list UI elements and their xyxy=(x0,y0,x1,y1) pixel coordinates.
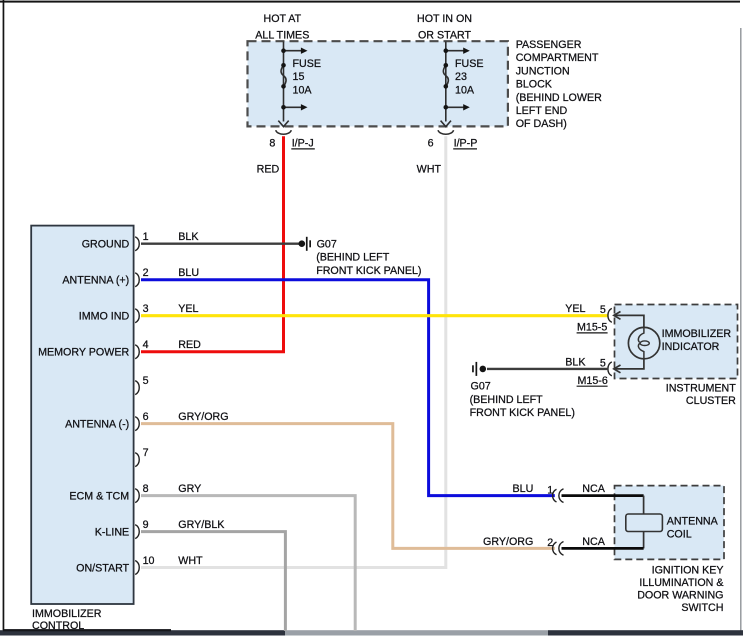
connector pin 2 antenna coil xyxy=(553,542,564,556)
svg-text:23: 23 xyxy=(455,71,467,83)
antenna coil box xyxy=(615,486,725,560)
svg-text:6: 6 xyxy=(143,411,149,423)
page border left xyxy=(3,0,5,633)
svg-text:BLU: BLU xyxy=(178,267,199,279)
wire GRY/BLK pin 9 down xyxy=(141,532,285,631)
footer band light middle xyxy=(285,630,548,635)
label HOT IN ON OR START xyxy=(417,13,472,41)
pin function labels inside immobilizer control xyxy=(38,239,130,575)
pin 2 connector xyxy=(135,273,139,287)
svg-text:COIL: COIL xyxy=(667,528,692,540)
svg-text:ANTENNA (-): ANTENNA (-) xyxy=(65,419,129,431)
wire NCA bottom antenna coil xyxy=(562,547,644,550)
svg-text:ON/START: ON/START xyxy=(76,562,130,574)
svg-text:M15-6: M15-6 xyxy=(578,375,608,387)
svg-text:YEL: YEL xyxy=(178,303,198,315)
svg-text:RED: RED xyxy=(178,339,201,351)
svg-text:FRONT KICK PANEL): FRONT KICK PANEL) xyxy=(470,407,575,419)
svg-text:4: 4 xyxy=(143,339,149,351)
svg-text:1: 1 xyxy=(143,231,149,243)
svg-text:5: 5 xyxy=(600,358,606,370)
svg-text:HOT IN ON: HOT IN ON xyxy=(417,13,472,25)
ground G07 left xyxy=(299,237,312,251)
cluster inner wire bottom xyxy=(614,358,644,373)
svg-text:CLUSTER: CLUSTER xyxy=(686,395,736,407)
svg-text:YEL: YEL xyxy=(565,303,585,315)
svg-text:K-LINE: K-LINE xyxy=(95,527,129,539)
passenger compartment junction block box xyxy=(248,41,508,126)
wire RED from fuse 15 to pin 4 xyxy=(141,136,284,351)
pin 4 connector xyxy=(135,345,139,359)
svg-text:SWITCH: SWITCH xyxy=(681,602,723,614)
svg-text:GRY/BLK: GRY/BLK xyxy=(178,519,225,531)
wire color labels at immobilizer control xyxy=(178,231,228,567)
immobilizer control box xyxy=(31,226,133,604)
label IGNITION KEY ILLUMINATION & DOOR WARNING SWITCH xyxy=(637,565,723,615)
svg-text:FRONT KICK PANEL): FRONT KICK PANEL) xyxy=(316,265,421,277)
label INSTRUMENT CLUSTER xyxy=(666,383,737,407)
fuse F15 10A xyxy=(278,42,301,127)
svg-text:M15-5: M15-5 xyxy=(577,322,607,334)
label IMMOBILIZER CONTROL xyxy=(32,608,102,632)
svg-text:ILLUMINATION &: ILLUMINATION & xyxy=(639,577,723,589)
pin 5 connector xyxy=(135,381,139,395)
page border top xyxy=(0,1,740,3)
coil bottom lead xyxy=(643,532,645,549)
svg-text:ALL TIMES: ALL TIMES xyxy=(255,29,309,41)
svg-text:5: 5 xyxy=(143,375,149,387)
label IMMOBILIZER INDICATOR xyxy=(662,328,732,353)
svg-text:10A: 10A xyxy=(455,84,475,96)
svg-text:WHT: WHT xyxy=(417,164,442,176)
svg-text:6: 6 xyxy=(428,137,434,149)
pin 3 connector xyxy=(135,309,139,323)
pin 10 connector xyxy=(135,561,139,575)
svg-text:IMMO IND: IMMO IND xyxy=(79,311,130,323)
svg-text:GRY/ORG: GRY/ORG xyxy=(178,411,228,423)
svg-text:OF DASH): OF DASH) xyxy=(516,118,567,130)
svg-text:7: 7 xyxy=(143,447,149,459)
coil top lead xyxy=(643,496,645,515)
label G07 behind left front kick panel right xyxy=(470,381,575,419)
page border right xyxy=(740,28,741,631)
svg-text:IGNITION KEY: IGNITION KEY xyxy=(652,565,724,577)
cluster connector M15-6 arc xyxy=(608,362,612,376)
cluster connector M15-5 arc xyxy=(608,308,612,322)
pin 6 connector xyxy=(135,417,139,431)
connector I/P-P cup xyxy=(438,130,454,134)
svg-text:5: 5 xyxy=(600,304,606,316)
svg-text:I/P-J: I/P-J xyxy=(292,137,314,149)
label G07 behind left front kick panel xyxy=(316,239,421,277)
antenna coil element xyxy=(626,514,663,532)
svg-text:10: 10 xyxy=(143,555,155,567)
svg-text:GRY: GRY xyxy=(178,483,201,495)
lamp immobilizer indicator xyxy=(628,327,659,358)
label FUSE 23 10A xyxy=(455,58,484,96)
svg-text:RED: RED xyxy=(257,164,280,176)
wire NCA top antenna coil xyxy=(562,494,644,497)
footer band dark left xyxy=(0,630,285,635)
svg-text:G07: G07 xyxy=(471,381,491,393)
svg-text:BLOCK: BLOCK xyxy=(516,79,553,91)
svg-text:(BEHIND LEFT: (BEHIND LEFT xyxy=(316,252,390,264)
label FUSE 15 10A xyxy=(293,58,322,96)
pin 8 connector xyxy=(135,489,139,503)
svg-text:DOOR WARNING: DOOR WARNING xyxy=(637,590,723,602)
svg-text:(BEHIND LOWER: (BEHIND LOWER xyxy=(516,92,602,104)
svg-text:2: 2 xyxy=(143,267,149,279)
label PASSENGER COMPARTMENT JUNCTION BLOCK xyxy=(516,39,602,130)
svg-text:WHT: WHT xyxy=(178,555,203,567)
svg-text:1: 1 xyxy=(547,484,553,496)
svg-text:OR START: OR START xyxy=(418,29,472,41)
svg-text:9: 9 xyxy=(143,519,149,531)
svg-text:3: 3 xyxy=(143,303,149,315)
svg-text:GRY/ORG: GRY/ORG xyxy=(483,536,533,548)
svg-text:NCA: NCA xyxy=(582,483,605,495)
svg-text:COMPARTMENT: COMPARTMENT xyxy=(516,52,599,64)
svg-text:HOT AT: HOT AT xyxy=(263,13,301,25)
svg-text:NCA: NCA xyxy=(582,536,605,548)
wire GRY pin 8 down xyxy=(141,496,355,631)
svg-text:INSTRUMENT: INSTRUMENT xyxy=(666,383,737,395)
svg-text:I/P-P: I/P-P xyxy=(454,137,478,149)
svg-text:BLK: BLK xyxy=(178,231,199,243)
pin connectors on immobilizer control xyxy=(135,237,139,575)
svg-text:G07: G07 xyxy=(317,239,337,251)
pin numbers immobilizer control xyxy=(143,231,155,567)
svg-text:FUSE: FUSE xyxy=(455,58,484,70)
wire YEL pin 3 to cluster M15-5 xyxy=(141,314,609,317)
connector pin 1 antenna coil xyxy=(553,489,564,503)
label HOT AT ALL TIMES xyxy=(255,13,309,41)
cluster inner wire top xyxy=(614,312,644,328)
svg-text:ANTENNA: ANTENNA xyxy=(667,515,719,527)
instrument cluster box xyxy=(615,305,738,379)
svg-text:BLU: BLU xyxy=(513,483,534,495)
svg-text:LEFT END: LEFT END xyxy=(516,105,568,117)
label ANTENNA COIL xyxy=(667,515,719,540)
svg-text:BLK: BLK xyxy=(565,356,586,368)
wire BLK G07 to cluster M15-6 xyxy=(487,368,609,370)
wire GRY/ORG pin 6 to antenna coil pin 2 xyxy=(141,424,555,549)
svg-text:8: 8 xyxy=(143,483,149,495)
svg-text:2: 2 xyxy=(547,537,553,549)
svg-text:IMMOBILIZER: IMMOBILIZER xyxy=(32,608,102,620)
pin 1 connector xyxy=(135,237,139,251)
svg-text:15: 15 xyxy=(293,71,305,83)
svg-text:8: 8 xyxy=(269,137,275,149)
svg-text:ANTENNA (+): ANTENNA (+) xyxy=(62,275,129,287)
fuse F23 10A xyxy=(441,42,464,127)
svg-text:IMMOBILIZER: IMMOBILIZER xyxy=(662,328,732,340)
connector I/P-J cup xyxy=(276,130,292,134)
svg-text:INDICATOR: INDICATOR xyxy=(662,341,720,353)
pin 9 connector xyxy=(135,525,139,539)
svg-text:JUNCTION: JUNCTION xyxy=(516,65,570,77)
wire BLK pin 1 to G07 xyxy=(141,242,299,244)
svg-text:MEMORY POWER: MEMORY POWER xyxy=(38,347,129,359)
svg-text:10A: 10A xyxy=(293,84,313,96)
svg-text:PASSENGER: PASSENGER xyxy=(516,39,582,51)
footer black line segment xyxy=(3,629,171,631)
wire BLU pin 2 to antenna coil pin 1 xyxy=(141,280,555,496)
ground G07 right xyxy=(472,362,486,376)
footer band dark right xyxy=(548,630,743,635)
pin 7 connector xyxy=(135,453,139,467)
svg-text:FUSE: FUSE xyxy=(293,58,322,70)
wire WHT from fuse 23 to pin 10 xyxy=(141,136,446,567)
svg-text:ECM & TCM: ECM & TCM xyxy=(69,491,129,503)
svg-text:CONTROL: CONTROL xyxy=(32,620,84,632)
svg-text:(BEHIND LEFT: (BEHIND LEFT xyxy=(470,394,544,406)
svg-text:GROUND: GROUND xyxy=(82,239,130,251)
